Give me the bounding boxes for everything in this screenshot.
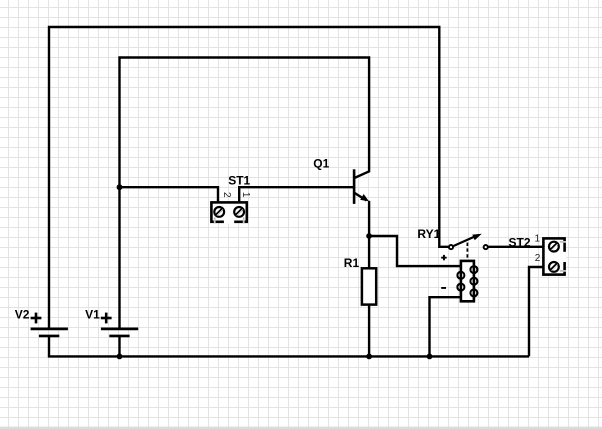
battery V1: [101, 329, 138, 336]
svg-text:2: 2: [535, 253, 541, 264]
svg-text:V2: V2: [15, 307, 30, 321]
plus sign V1: [101, 313, 112, 324]
bottom window edge: [0, 427, 602, 429]
svg-text:2: 2: [221, 192, 232, 198]
wire: relay NO contact to ST2 pin 1: [488, 246, 544, 248]
svg-text:R1: R1: [344, 256, 360, 270]
wire: R1 to ground bus: [368, 305, 370, 357]
junction: emitter node: [366, 233, 372, 239]
wire: ST1 pin 1 to Q1 base: [239, 187, 355, 201]
battery V2: [31, 329, 68, 336]
svg-text:ST1: ST1: [228, 174, 250, 188]
svg-text:RY1: RY1: [417, 227, 440, 241]
wire: V1 negative stub to bus: [118, 337, 120, 357]
wire: emitter node to R1: [368, 236, 370, 269]
junction: coil return on ground bus: [427, 354, 433, 360]
wire: bottom ground bus: [120, 355, 530, 357]
transistor Q1: [354, 169, 369, 204]
wire: relay coil - to ground bus: [430, 297, 461, 356]
wire: Q1 emitter down to node: [368, 201, 370, 236]
wire: V1 positive rail (inner vertical, inner top rail, drop to Q1 collector): [120, 58, 370, 328]
wire: base tap to ST1 pin 2: [118, 187, 218, 201]
label coil plus: [441, 255, 446, 260]
svg-text:1: 1: [535, 233, 541, 244]
junction: base tap on V1 rail: [117, 184, 123, 190]
plus sign V2: [31, 313, 42, 324]
terminal block ST1: [211, 202, 246, 223]
terminal block ST2: [543, 238, 566, 274]
relay RY1 coil: [457, 261, 477, 301]
label coil minus: [441, 287, 446, 289]
wire: emitter node to relay coil +: [369, 236, 460, 266]
svg-text:V1: V1: [85, 307, 100, 321]
junction: V1 on ground bus: [117, 354, 123, 360]
wire: V2 positive rail (left vertical, top rail, right drop to relay common): [49, 27, 449, 328]
wire: ST2 pin2 down to ground bus: [529, 267, 544, 356]
resistor R1: [362, 268, 376, 304]
wire: V2 negative to ground bus: [49, 337, 120, 357]
relay RY1 switch: [449, 234, 488, 260]
svg-text:Q1: Q1: [313, 157, 329, 171]
junction: R1 on ground bus: [366, 354, 372, 360]
svg-text:1: 1: [240, 192, 251, 198]
svg-text:ST2: ST2: [509, 236, 531, 250]
